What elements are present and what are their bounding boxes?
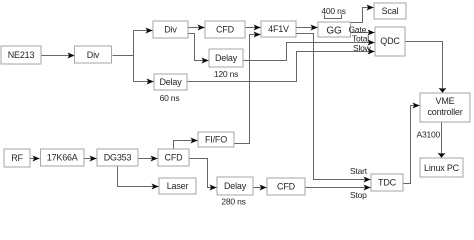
svg-text:RF: RF bbox=[11, 153, 23, 163]
svg-text:Delay: Delay bbox=[224, 181, 247, 191]
svg-text:Linux PC: Linux PC bbox=[424, 163, 460, 173]
svg-text:Div: Div bbox=[164, 25, 177, 35]
svg-text:Start: Start bbox=[350, 166, 368, 176]
svg-text:CFD: CFD bbox=[165, 153, 184, 163]
svg-text:Delay: Delay bbox=[159, 77, 182, 87]
svg-text:60 ns: 60 ns bbox=[160, 93, 180, 103]
svg-text:TDC: TDC bbox=[378, 178, 397, 188]
svg-text:120 ns: 120 ns bbox=[214, 69, 238, 79]
svg-text:Scal: Scal bbox=[382, 6, 399, 16]
svg-text:NE213: NE213 bbox=[8, 50, 35, 60]
svg-text:Stop: Stop bbox=[350, 190, 367, 200]
svg-text:VME: VME bbox=[436, 96, 455, 106]
svg-text:4F1V: 4F1V bbox=[268, 24, 289, 34]
svg-text:Div: Div bbox=[87, 50, 100, 60]
svg-text:A3100: A3100 bbox=[417, 130, 441, 140]
svg-text:QDC: QDC bbox=[380, 36, 400, 46]
svg-text:Slow: Slow bbox=[353, 43, 372, 53]
svg-text:280 ns: 280 ns bbox=[221, 197, 245, 207]
svg-text:Laser: Laser bbox=[167, 181, 189, 191]
svg-text:controller: controller bbox=[427, 107, 462, 117]
svg-text:DG353: DG353 bbox=[104, 153, 132, 163]
svg-text:Delay: Delay bbox=[215, 53, 238, 63]
svg-text:CFD: CFD bbox=[277, 182, 296, 192]
svg-text:17K66A: 17K66A bbox=[47, 153, 78, 163]
svg-text:Total: Total bbox=[352, 34, 369, 44]
svg-text:FI/FO: FI/FO bbox=[205, 135, 227, 145]
svg-text:CFD: CFD bbox=[216, 25, 235, 35]
svg-text:GG: GG bbox=[326, 26, 342, 37]
svg-text:400 ns: 400 ns bbox=[321, 6, 345, 16]
